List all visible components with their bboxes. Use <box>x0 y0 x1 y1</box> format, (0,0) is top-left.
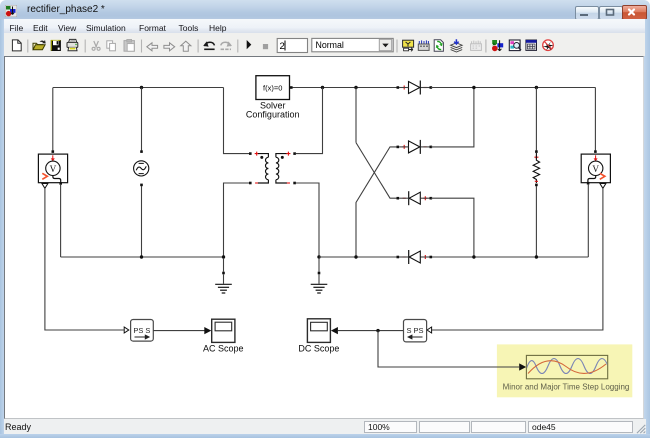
node xfmr L2 top port <box>293 152 296 155</box>
wire D2 out riser <box>431 88 474 147</box>
wire AC source top drop <box>141 88 143 151</box>
svg-text:f(x)=0: f(x)=0 <box>263 84 282 93</box>
window borders <box>0 19 4 434</box>
node logging input arrow <box>519 363 526 370</box>
node DC Scope input arrow <box>331 327 338 334</box>
wire D1 out to rail <box>431 87 474 89</box>
node junction secondary ground <box>317 255 320 258</box>
node V2 bottom conserving port <box>587 182 590 185</box>
ground G1 <box>215 258 232 293</box>
node junction X top <box>354 86 357 89</box>
voltage source V_AC <box>134 161 149 176</box>
status bar <box>4 419 646 434</box>
node resistor + port <box>535 150 538 153</box>
node xfmr L1 + marker <box>255 152 259 156</box>
node solver port <box>290 86 293 89</box>
svg-text:Configuration: Configuration <box>246 110 300 120</box>
node V1 PS output port <box>42 184 48 189</box>
block PS-Simulink converter PS S <box>131 320 154 342</box>
wire PS-S to AC Scope <box>153 330 204 332</box>
node xfmr L2 bottom port <box>293 182 296 185</box>
wire secondary bottom rail <box>319 256 588 258</box>
wire V2 top drop <box>594 88 596 151</box>
wire sensor V1 top drop <box>52 88 54 151</box>
wire X diagonal A <box>356 143 397 199</box>
node xfmr L2 + marker <box>286 152 290 156</box>
node junction logging tap <box>376 329 379 332</box>
block Simulink-PS converter S PS <box>404 320 427 342</box>
label Solver Configuration <box>246 100 300 119</box>
diode D4 <box>397 250 433 264</box>
svg-text:AC Scope: AC Scope <box>203 343 244 353</box>
wire xfmr primary bottom link <box>224 183 250 257</box>
wire X diagonal B <box>356 147 397 257</box>
transformer T1 windings <box>258 154 287 183</box>
node junction resistor top <box>535 86 538 89</box>
svg-text:DC Scope: DC Scope <box>298 343 339 353</box>
svg-text:V: V <box>592 164 599 174</box>
label AC Scope <box>203 343 244 353</box>
wire V2 bottom to rail <box>587 184 589 257</box>
node junction source top <box>140 86 143 89</box>
node resistor - port <box>535 184 538 187</box>
svg-text:PS S: PS S <box>133 326 150 335</box>
node xfmr L2 - marker <box>287 182 290 184</box>
svg-text:S PS: S PS <box>406 326 423 335</box>
ground G2 <box>311 258 328 293</box>
wire D3 out drop <box>431 198 474 257</box>
diode D3 <box>397 191 433 205</box>
wire xfmr L2 top riser <box>296 88 323 154</box>
node junction xfmr top riser <box>321 86 324 89</box>
node xfmr L1 bottom port <box>249 182 252 185</box>
voltage sensor V2 <box>581 154 610 183</box>
wire primary bottom rail <box>61 256 224 258</box>
resize grip <box>636 424 647 434</box>
block time step logging scope <box>526 355 620 378</box>
wire xfmr primary top link <box>224 88 250 154</box>
node AC source - port <box>140 184 143 187</box>
wire V2 PS out down-left to S-PS <box>432 188 603 330</box>
node junction D3 bottom <box>472 255 475 258</box>
menu bar <box>4 19 645 33</box>
node V1 bottom conserving port <box>59 182 62 185</box>
node AC source + port <box>140 150 143 153</box>
node xfmr L1 top port <box>249 152 252 155</box>
toolbar <box>4 33 645 56</box>
wire resistor top drop <box>535 88 537 151</box>
label DC Scope <box>298 343 339 353</box>
block Solver Configuration <box>256 76 290 100</box>
node junction D2 top <box>472 86 475 89</box>
node V2 top port <box>594 150 597 153</box>
node PS-S input arrow <box>124 327 129 333</box>
resistor R1 <box>533 153 539 183</box>
node junction source bottom <box>140 255 143 258</box>
node S-PS input arrow <box>427 327 432 333</box>
wire AC source bottom drop <box>141 186 143 257</box>
window title bar <box>0 0 650 19</box>
node xfmr L1 - marker <box>255 182 258 184</box>
wire V1 bottom to rail <box>60 184 62 257</box>
node junction resistor bottom <box>535 255 538 258</box>
node resistor + marker <box>534 155 538 159</box>
wire tap to logging block <box>378 331 519 367</box>
block AC Scope <box>212 319 235 342</box>
highlight Minor and Major Time Step Logging <box>497 344 632 397</box>
diode D1 <box>397 81 433 95</box>
label Minor and Major Time Step Logging <box>503 382 630 391</box>
wire secondary top rail <box>293 87 596 89</box>
voltage sensor V1 <box>38 154 67 183</box>
wire primary top rail <box>53 87 224 89</box>
node junction primary ground <box>222 255 225 258</box>
node T1 polarity dots <box>260 156 284 159</box>
node junction X bottom <box>354 255 357 258</box>
wire S-PS to DC Scope <box>338 330 404 332</box>
diode D2 <box>397 140 433 154</box>
node V2 PS output port <box>600 184 606 189</box>
caption buttons <box>575 6 599 20</box>
node resistor - marker <box>535 180 538 182</box>
svg-text:V: V <box>50 164 57 174</box>
svg-text:Minor and Major Time Step Logg: Minor and Major Time Step Logging <box>503 382 630 391</box>
wire X vertical top <box>355 88 357 143</box>
block DC Scope <box>307 319 330 343</box>
node sensor V1 top port <box>52 150 55 153</box>
wire V1 PS out down-right to PS-S <box>45 188 124 330</box>
wire resistor bottom drop <box>535 186 537 257</box>
wire xfmr L2 bottom drop <box>296 183 319 257</box>
node AC Scope input arrow <box>204 327 211 334</box>
simulink app icon <box>5 5 17 17</box>
